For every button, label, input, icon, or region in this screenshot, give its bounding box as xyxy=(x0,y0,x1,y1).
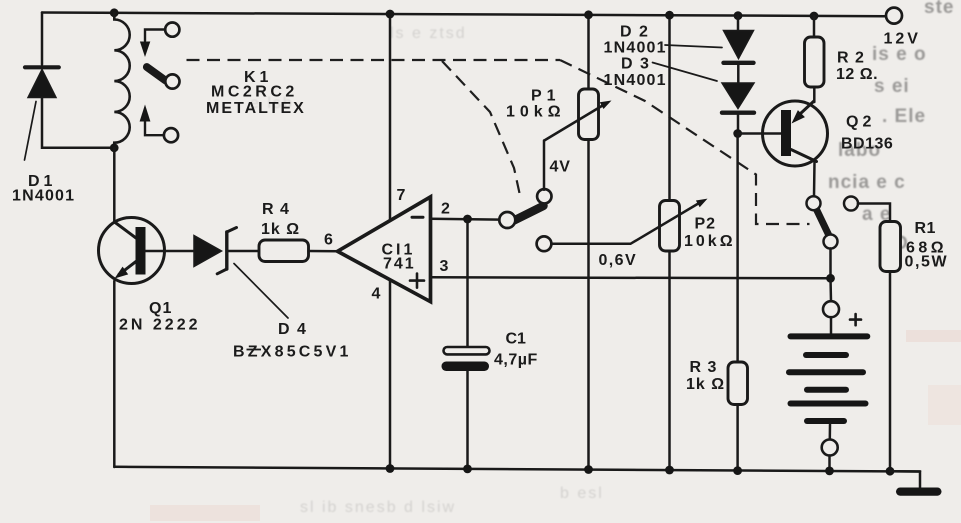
wire S2 bottom contact to battery node xyxy=(829,249,832,275)
relay K1 coil xyxy=(114,13,129,148)
node D2 top rail xyxy=(734,11,743,20)
wire D1 anode to coil bottom node xyxy=(42,98,114,148)
relay K1 moving arm xyxy=(147,67,166,81)
potentiometer P1 body xyxy=(579,89,599,140)
battery plus sign xyxy=(850,314,861,325)
DASHED xyxy=(187,60,810,224)
wire rail to R2 xyxy=(813,16,816,37)
wire left drop to D1 xyxy=(41,13,44,65)
wire dashed link C (to switch S2) xyxy=(560,60,810,224)
svg-text:R 4: R 4 xyxy=(262,201,290,218)
wire terminal to battery xyxy=(830,317,833,333)
svg-text:D 3: D 3 xyxy=(621,56,650,73)
node P1 bottom rail xyxy=(584,465,593,474)
ground xyxy=(896,488,942,496)
svg-text:MC2RC2: MC2RC2 xyxy=(211,84,298,101)
svg-text:. Ele: . Ele xyxy=(882,106,926,127)
svg-text:4,7µF: 4,7µF xyxy=(494,352,538,369)
svg-text:P1: P1 xyxy=(531,88,561,105)
switch S2 pole contact xyxy=(807,196,821,210)
wire Q1 emitter to bottom rail xyxy=(113,281,116,467)
node battery junction xyxy=(826,274,835,283)
svg-text:sl ib snesb d lsiw: sl ib snesb d lsiw xyxy=(300,499,456,516)
svg-text:12 Ω.: 12 Ω. xyxy=(836,66,878,83)
node R1 bottom rail xyxy=(886,467,895,476)
svg-text:R1: R1 xyxy=(915,220,936,237)
wire battery to bottom terminal xyxy=(829,425,832,440)
diode D3 xyxy=(653,63,755,113)
relay K1 contact top xyxy=(140,23,180,58)
node P1 top rail xyxy=(584,10,593,19)
svg-text:BD136: BD136 xyxy=(841,136,893,153)
battery B1 plates xyxy=(789,336,867,421)
node battery bottom rail xyxy=(825,467,834,476)
node P2 bottom rail xyxy=(665,466,674,475)
wire R4 to op-amp pin6 xyxy=(309,250,340,253)
svg-text:C1: C1 xyxy=(506,331,527,348)
wire 4V switch to P1 wiper xyxy=(543,141,546,190)
resistor R4 xyxy=(259,240,309,262)
wire Q1 base to D4 xyxy=(146,250,195,253)
diode D1 xyxy=(25,67,59,160)
wire R1 to bottom rail xyxy=(889,272,892,472)
relay K1 contact middle xyxy=(165,74,179,88)
wire node to battery top terminal xyxy=(829,278,832,301)
node pin2 junction xyxy=(463,215,472,224)
node R2 top rail xyxy=(810,12,819,21)
switch S2 bottom contact xyxy=(824,235,838,249)
op-amp minus sign xyxy=(412,216,423,219)
resistor R1 xyxy=(880,222,901,272)
wire P2 bottom to rail xyxy=(668,251,671,470)
wire rail to ground xyxy=(890,471,920,488)
wire 0,6V switch to P2 wiper xyxy=(551,203,700,244)
svg-text:1k Ω: 1k Ω xyxy=(686,376,725,393)
svg-text:METALTEX: METALTEX xyxy=(206,100,306,117)
wire pin2 to switch xyxy=(431,218,501,221)
wire D3 to base node xyxy=(737,115,740,134)
node C1 bottom rail xyxy=(463,465,472,474)
svg-text:R 3: R 3 xyxy=(690,359,718,376)
wire rail to D2 xyxy=(737,16,740,31)
svg-text:3: 3 xyxy=(440,258,450,275)
node supply top xyxy=(386,10,395,19)
svg-text:ls e ztsd: ls e ztsd xyxy=(390,25,467,42)
switch S1 top contact xyxy=(537,189,551,203)
wire terminal to bottom rail xyxy=(828,456,831,471)
switch S1 pole contact xyxy=(499,212,515,228)
wire P1 bottom to rail xyxy=(587,140,590,470)
wire R3 to bottom rail xyxy=(736,405,739,471)
wire base node down to R3 xyxy=(736,134,739,363)
op-amp plus sign xyxy=(410,274,424,288)
svg-text:Q2: Q2 xyxy=(846,114,875,131)
svg-text:Q1: Q1 xyxy=(149,300,172,317)
svg-text:12V: 12V xyxy=(884,31,921,48)
wire dashed link B (to switch S1) xyxy=(442,61,521,200)
wire bottom ground rail xyxy=(114,467,920,472)
node supply bottom xyxy=(386,464,395,473)
resistor R3 xyxy=(728,362,748,405)
wire D4 to R4 xyxy=(227,250,259,253)
wire top supply rail xyxy=(42,13,886,17)
svg-text:0,6V: 0,6V xyxy=(599,252,638,269)
svg-text:BZX85C5V1: BZX85C5V1 xyxy=(233,344,352,361)
wire P2 top feed xyxy=(668,15,671,200)
potentiometer P1 wiper arrow xyxy=(545,101,612,141)
wire op-amp supply line pins 7/4 xyxy=(389,14,392,469)
diode D2 xyxy=(665,31,754,63)
capacitor C1 xyxy=(442,347,490,371)
wire P1 top feed xyxy=(587,15,590,89)
svg-text:4V: 4V xyxy=(550,159,571,176)
svg-text:7: 7 xyxy=(397,187,407,204)
resistor R2 xyxy=(805,37,825,87)
label D4 value xyxy=(247,349,262,351)
svg-text:1N4001: 1N4001 xyxy=(12,188,75,205)
svg-text:2N 2222: 2N 2222 xyxy=(119,317,201,334)
wire D2 to D3 xyxy=(737,65,740,84)
wire pin2 junction down to C1 xyxy=(466,219,469,347)
transistor Q2 xyxy=(763,101,828,166)
switch S2 right contact xyxy=(844,197,858,211)
node coil bottom xyxy=(110,143,119,152)
svg-text:ncia e c: ncia e c xyxy=(828,172,906,193)
relay K1 contact bottom xyxy=(140,105,178,143)
wire coil node to Q1 collector xyxy=(113,148,116,222)
wire R2 to Q2 emitter xyxy=(813,87,816,102)
node top rail / relay coil xyxy=(110,8,119,17)
wire pin3 long wire to battery node xyxy=(431,277,831,278)
svg-text:4: 4 xyxy=(372,286,382,303)
svg-text:1k Ω: 1k Ω xyxy=(261,221,300,238)
svg-text:P2: P2 xyxy=(695,216,717,233)
wire S2 right contact to R1 xyxy=(858,204,890,222)
svg-text:6: 6 xyxy=(324,232,334,249)
battery top terminal xyxy=(823,301,839,317)
svg-text:D 4: D 4 xyxy=(278,321,307,338)
svg-text:1N4001: 1N4001 xyxy=(604,72,667,89)
svg-text:10kΩ: 10kΩ xyxy=(506,104,566,121)
node Q2 base junction xyxy=(733,129,742,138)
switch S1 bottom contact xyxy=(537,236,552,251)
svg-text:0,5W: 0,5W xyxy=(905,254,949,271)
wire Q2 collector to switch S2 xyxy=(813,162,816,196)
svg-text:R 2: R 2 xyxy=(837,50,865,67)
svg-text:ste: ste xyxy=(924,0,954,18)
wire C1 to bottom rail xyxy=(466,371,469,469)
battery bottom terminal xyxy=(822,440,838,456)
op-amp U1 CI1 741 xyxy=(338,197,431,302)
node R3 bottom rail xyxy=(733,466,742,475)
svg-text:s ei: s ei xyxy=(874,76,910,97)
svg-text:2: 2 xyxy=(441,201,451,218)
svg-text:10kΩ: 10kΩ xyxy=(684,233,736,250)
svg-text:1N4001: 1N4001 xyxy=(604,40,667,57)
svg-text:D 2: D 2 xyxy=(620,24,649,41)
potentiometer P2 wiper arrowhead xyxy=(696,199,708,208)
transistor Q1 xyxy=(99,218,165,284)
switch S2 arm xyxy=(817,210,829,235)
node P2 top rail xyxy=(665,11,674,20)
terminal 12V xyxy=(886,8,902,24)
svg-text:b esl: b esl xyxy=(560,485,604,502)
wire dashed link A (relay to P1 area) xyxy=(187,59,561,61)
zener D4 xyxy=(194,228,288,319)
svg-text:741: 741 xyxy=(383,256,416,273)
wire base node to Q2 xyxy=(738,132,782,135)
switch S1 arm xyxy=(514,206,544,221)
potentiometer P2 body xyxy=(660,201,680,252)
